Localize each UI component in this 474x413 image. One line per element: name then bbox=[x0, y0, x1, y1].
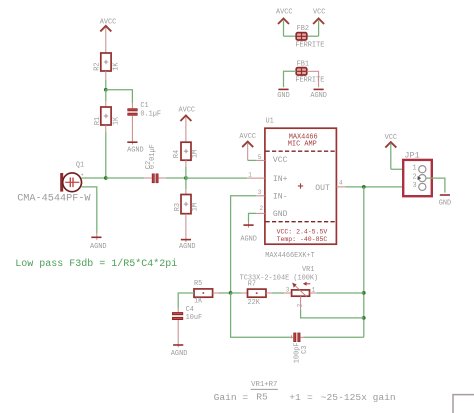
wire IN- to feedback bbox=[231, 196, 257, 293]
svg-text:R5: R5 bbox=[256, 392, 268, 403]
wire IC GND pin to AGND bbox=[249, 213, 257, 222]
svg-text:VCC: 2.4-5.5V: VCC: 2.4-5.5V bbox=[277, 229, 328, 236]
capacitor C4 bbox=[172, 306, 202, 322]
svg-text:C3: C3 bbox=[301, 346, 309, 354]
pin 5 bbox=[256, 159, 265, 161]
svg-text:1: 1 bbox=[312, 286, 316, 293]
svg-text:R4: R4 bbox=[173, 150, 181, 158]
resistor R7 bbox=[248, 280, 267, 307]
svg-text:GND: GND bbox=[273, 210, 288, 219]
wire node to C2 bbox=[106, 177, 145, 179]
svg-text:=: = bbox=[307, 392, 313, 403]
svg-text:IN-: IN- bbox=[273, 193, 288, 202]
svg-text:AVCC: AVCC bbox=[179, 106, 196, 114]
supply AVCC (IC pin 5) bbox=[239, 133, 256, 161]
svg-text:FB2: FB2 bbox=[297, 25, 309, 33]
ground AGND (FB1) bbox=[310, 89, 327, 100]
svg-text:1M: 1M bbox=[192, 150, 200, 158]
svg-text:~25-125x gain: ~25-125x gain bbox=[321, 392, 396, 403]
svg-text:1: 1 bbox=[412, 164, 416, 172]
svg-text:VR1+R7: VR1+R7 bbox=[251, 381, 277, 389]
node junction R1/R2/C1 bbox=[104, 88, 108, 92]
svg-text:+1: +1 bbox=[289, 392, 301, 403]
svg-text:0.1µF: 0.1µF bbox=[140, 110, 161, 118]
svg-text:22K: 22K bbox=[248, 299, 261, 307]
svg-text:R5: R5 bbox=[194, 280, 202, 288]
pin 4 bbox=[336, 186, 345, 188]
svg-text:R1: R1 bbox=[94, 117, 102, 125]
node wiper bbox=[362, 316, 366, 320]
wire R4 to node bbox=[185, 160, 187, 167]
wire node to C1 bbox=[106, 90, 133, 103]
node mic/R1/C2 bbox=[104, 176, 108, 180]
supply VCC (JP1) bbox=[385, 134, 397, 169]
svg-text:TC33X-2-104E (100K): TC33X-2-104E (100K) bbox=[240, 274, 319, 282]
connector JP1 bbox=[403, 150, 432, 196]
svg-text:VR1: VR1 bbox=[302, 266, 314, 274]
wire node down to C3 bbox=[231, 293, 291, 337]
resistor R2 bbox=[93, 53, 120, 71]
wire R5 to node bbox=[213, 292, 219, 294]
resistor R5 bbox=[194, 280, 213, 306]
op-amp U1 MAX4466 bbox=[265, 118, 337, 245]
wire R7 to VR1 bbox=[266, 292, 272, 294]
wire node to R7 bbox=[231, 292, 241, 294]
svg-text:AGND: AGND bbox=[179, 243, 196, 251]
svg-text:1K: 1K bbox=[113, 116, 121, 125]
pin 1 bbox=[247, 177, 265, 179]
svg-text:AVCC: AVCC bbox=[239, 133, 256, 141]
ground AGND (below C1) bbox=[127, 142, 144, 154]
frame corner bbox=[452, 395, 454, 413]
svg-text:Low pass F3db = 1/R5*C4*2pi: Low pass F3db = 1/R5*C4*2pi bbox=[15, 258, 177, 270]
wire VCC to JP1 pin1 bbox=[391, 168, 419, 170]
svg-text:AGND: AGND bbox=[240, 235, 257, 243]
svg-text:5: 5 bbox=[258, 154, 262, 161]
node VR1 pin1 bbox=[362, 291, 366, 295]
ground GND (FB1) bbox=[277, 89, 289, 100]
svg-text:IN+: IN+ bbox=[273, 175, 288, 184]
svg-text:1M: 1M bbox=[191, 203, 199, 211]
wire mic- to AGND bbox=[81, 187, 96, 233]
svg-text:C4: C4 bbox=[186, 306, 194, 314]
ground GND (JP1) bbox=[439, 195, 451, 207]
svg-text:Temp: -40-85C: Temp: -40-85C bbox=[277, 236, 328, 243]
node R3/R4/IN+ bbox=[184, 176, 188, 180]
svg-text:4: 4 bbox=[339, 179, 343, 186]
wire C3 to node bbox=[301, 336, 304, 338]
svg-text:OUT: OUT bbox=[315, 184, 330, 193]
wire R3 to AGND bbox=[185, 214, 187, 242]
wire feedback vertical bbox=[363, 187, 365, 337]
svg-text:U1: U1 bbox=[266, 118, 274, 126]
svg-text:VCC: VCC bbox=[273, 156, 288, 165]
capacitor C1 bbox=[127, 102, 161, 119]
ferrite FB2 bbox=[276, 9, 325, 50]
supply AVCC (top, above R2) bbox=[100, 19, 117, 53]
svg-text:GND: GND bbox=[439, 199, 451, 207]
wire VR1 wiper to node bbox=[300, 296, 302, 310]
svg-text:3: 3 bbox=[286, 286, 290, 293]
svg-text:1K: 1K bbox=[113, 62, 121, 71]
svg-text:AGND: AGND bbox=[310, 92, 327, 100]
capacitor C3 bbox=[293, 333, 309, 364]
node OUT/feedback bbox=[362, 185, 366, 189]
wire C4 to AGND bbox=[177, 320, 179, 347]
svg-text:0.01µF: 0.01µF bbox=[149, 144, 157, 169]
ferrite FB1 bbox=[284, 61, 325, 88]
wire node to IC IN+ bbox=[186, 177, 247, 179]
svg-text:2: 2 bbox=[412, 173, 416, 181]
wire AVCC to pin5 bbox=[248, 159, 256, 161]
svg-text:R2: R2 bbox=[93, 63, 101, 71]
wire node to R1 bbox=[105, 90, 107, 101]
svg-text:2: 2 bbox=[296, 303, 303, 307]
wire mic+ to node bbox=[81, 177, 105, 179]
svg-text:AVCC: AVCC bbox=[100, 19, 117, 27]
svg-text:1: 1 bbox=[248, 172, 252, 179]
svg-text:R3: R3 bbox=[174, 203, 182, 211]
svg-text:MIC AMP: MIC AMP bbox=[288, 141, 317, 149]
svg-text:AGND: AGND bbox=[90, 243, 107, 251]
svg-text:VCC: VCC bbox=[313, 9, 325, 17]
wire R5 left to C4 bbox=[178, 293, 194, 308]
capacitor C2 bbox=[145, 144, 159, 183]
ground AGND (mic) bbox=[90, 237, 107, 251]
svg-text:2: 2 bbox=[260, 205, 264, 212]
svg-text:VCC: VCC bbox=[385, 134, 397, 142]
pin 3 bbox=[256, 195, 265, 197]
svg-text:3: 3 bbox=[258, 189, 262, 196]
svg-text:1K: 1K bbox=[194, 298, 203, 306]
pin 2 bbox=[256, 212, 265, 214]
wire OUT to JP1 bbox=[345, 186, 419, 188]
svg-text:FERRITE: FERRITE bbox=[295, 41, 324, 49]
wire R1 to mic node bbox=[105, 125, 107, 132]
svg-text:3: 3 bbox=[412, 182, 416, 190]
svg-text:100pF: 100pF bbox=[293, 343, 301, 364]
formula gain bbox=[214, 381, 396, 403]
wire JP1 pin2 to GND bbox=[427, 178, 445, 193]
potentiometer VR1 bbox=[240, 266, 319, 307]
resistor R1 bbox=[94, 107, 120, 125]
svg-text:MAX4466EXK+T: MAX4466EXK+T bbox=[265, 252, 315, 260]
node R5/R7/IN-/C3 bbox=[229, 291, 233, 295]
wire R2 to node bbox=[105, 71, 107, 80]
svg-text:10uF: 10uF bbox=[186, 314, 203, 322]
svg-text:Gain =: Gain = bbox=[214, 392, 249, 403]
resistor R3 bbox=[174, 195, 199, 214]
svg-text:Q1: Q1 bbox=[76, 162, 84, 170]
svg-text:C1: C1 bbox=[140, 102, 148, 110]
wire node to R3 bbox=[185, 178, 187, 189]
wire C2 to node R3/R4 bbox=[159, 177, 166, 179]
wire C1 to AGND bbox=[131, 116, 133, 145]
wire VR1 pin1 to node bbox=[310, 292, 317, 294]
svg-text:AGND: AGND bbox=[127, 146, 144, 154]
microphone Q1 bbox=[17, 162, 91, 205]
resistor R4 bbox=[173, 142, 199, 160]
svg-text:AGND: AGND bbox=[171, 350, 188, 358]
svg-text:AVCC: AVCC bbox=[276, 9, 293, 17]
ground AGND (below R3) bbox=[179, 240, 196, 251]
svg-text:GND: GND bbox=[277, 92, 289, 100]
svg-text:FERRITE: FERRITE bbox=[295, 76, 324, 84]
ground AGND (IC pin 2) bbox=[240, 225, 257, 243]
svg-text:CMA-4544PF-W: CMA-4544PF-W bbox=[17, 194, 91, 205]
ground AGND (C4) bbox=[171, 345, 188, 358]
supply AVCC (above R4) bbox=[179, 106, 196, 142]
